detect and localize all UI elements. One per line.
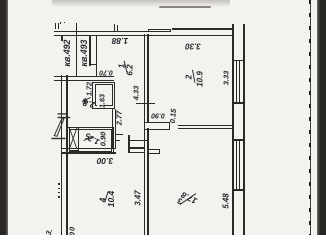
scan: top edge smudge xyxy=(52,0,230,7)
dim 0.90 door xyxy=(151,111,165,118)
dim 3.33 xyxy=(222,71,231,86)
node: vent tick mid xyxy=(114,24,115,30)
window: hatch 1 line a xyxy=(236,61,237,103)
room 6 box outer xyxy=(92,82,115,109)
label: room 4 fraction bar xyxy=(105,192,108,203)
room 3 number xyxy=(177,196,184,206)
wire: separator wall between kv.492 and kv.493 xyxy=(76,23,77,76)
dim 3.00 hall xyxy=(97,156,114,166)
node: duct cross diagonal b xyxy=(69,128,77,150)
wire: top exterior wall upper line left part xyxy=(54,31,148,32)
room 5 area 1.2 xyxy=(87,133,101,146)
dim 0.90 room5 xyxy=(98,132,107,147)
node: vent tick pair top-left xyxy=(55,23,56,30)
wall: right exterior inner line xyxy=(232,24,234,235)
door: room 6 bottom opening eraser xyxy=(97,104,104,109)
label: room 2 fraction bar xyxy=(193,70,195,83)
door: sill line below leaf xyxy=(52,138,66,140)
dim 0.70 xyxy=(99,68,113,75)
wall: hall bottom wall lower line xyxy=(61,152,116,153)
dim 3.47 xyxy=(134,190,143,205)
room 1 area 6.2 xyxy=(125,64,134,75)
dim 3.00 bottom cut xyxy=(68,226,77,236)
wall: hall bottom wall right piece lower xyxy=(128,152,145,153)
node: duct cross diagonal a xyxy=(69,128,77,150)
wire: kv.492 stub under top wall xyxy=(61,36,63,40)
wire: wall A right line xyxy=(96,35,97,77)
wall: rooms 3/4 wall right line xyxy=(147,128,149,235)
scan: right dark band xyxy=(317,0,326,235)
wire: left exterior wall outer line xyxy=(61,75,63,235)
dim 4.33 xyxy=(132,85,141,100)
wall: right exterior outer line xyxy=(243,24,245,235)
wall: hall bottom wall right piece upper xyxy=(128,147,145,148)
wall: rooms 3/4 wall left line xyxy=(144,128,146,235)
room 5 box outer xyxy=(67,127,114,154)
label: room 3 fraction bar xyxy=(180,194,196,205)
dim 2.77 xyxy=(114,110,123,125)
label: room 1 fraction bar xyxy=(124,61,127,72)
wire: top exterior wall lower line xyxy=(54,35,233,37)
wall: rooms 2/3 upper line xyxy=(178,125,233,126)
dim 1.88 xyxy=(112,36,129,46)
node: top wall step band (lintel) xyxy=(148,29,172,32)
wall: corridor / room2 wall left line xyxy=(144,34,146,122)
room 5 number xyxy=(85,131,91,141)
wall: corridor / room2 wall right line xyxy=(147,34,149,122)
wire: room6 right wall extension to hall xyxy=(112,109,113,149)
window: hatch 1 bottom cap xyxy=(232,102,244,103)
wire: wall A left line (kv.493 right wall) xyxy=(89,35,90,66)
node: dots on left wall xyxy=(58,183,59,185)
scan: left dark band xyxy=(0,0,8,235)
door: opening rooms 2/3 threshold rect xyxy=(144,122,170,130)
wire: hall door guide line xyxy=(116,140,121,141)
room 4 number xyxy=(99,198,108,202)
scan: thin sheet edge line right xyxy=(310,0,312,235)
wire: room5 door frame top line xyxy=(115,134,124,135)
wall: hall bottom wall upper line xyxy=(61,148,116,149)
label kv.493 xyxy=(79,39,89,66)
dim 1.72 xyxy=(84,82,93,96)
node: niche bar in room 3 corner xyxy=(148,149,161,153)
window: hatch 1 line b xyxy=(239,61,240,103)
room 5 box inner xyxy=(69,129,112,152)
dim 3.30 xyxy=(185,42,201,51)
room 2 number xyxy=(184,75,193,79)
room 6 area 2.8 xyxy=(82,98,96,110)
window: hatch 2 line a xyxy=(236,140,237,190)
room 1 number xyxy=(117,63,126,67)
node: duct with cross in room 5 xyxy=(69,127,80,152)
wire: wall A connector xyxy=(89,64,97,65)
door: upper jamb tick on left wall xyxy=(58,113,67,115)
room 6 box inner xyxy=(95,84,113,106)
wire: jog wall lower line xyxy=(54,80,114,81)
window: hatch 2 line b xyxy=(239,140,240,190)
label: room 6 fraction bar xyxy=(82,97,91,101)
door: entry door leaf on left wall xyxy=(54,119,64,137)
dim 1.63 xyxy=(98,94,107,108)
mark bottom left xyxy=(44,227,54,236)
node: dots near tick xyxy=(60,22,61,23)
door: jamb tick in hall doorway xyxy=(128,135,130,152)
window: hatch 2 top cap xyxy=(232,139,244,140)
room 3 area 17.8 xyxy=(180,190,199,206)
wire: left exterior wall inner line xyxy=(66,75,68,235)
label: room 5 fraction bar xyxy=(84,136,94,140)
window: hatch 1 top cap xyxy=(232,60,244,61)
wire: jog wall upper line xyxy=(54,76,114,77)
door: lower jamb tick on left wall xyxy=(58,117,71,119)
dim 0.15 xyxy=(167,108,177,123)
scan: top edge dark segment xyxy=(159,6,211,8)
dim 5.48 xyxy=(221,193,230,208)
room 6 number xyxy=(82,96,88,105)
label kv.492 xyxy=(62,40,72,67)
wire: top exterior wall upper line right part xyxy=(172,28,233,29)
wire: dimension tick above door xyxy=(136,103,156,104)
wall: rooms 2/3 lower line xyxy=(178,128,233,129)
window: hatch 2 bottom cap xyxy=(232,189,244,190)
room 2 area 10.9 xyxy=(195,71,204,87)
room 4 area 10.4 xyxy=(106,190,116,207)
